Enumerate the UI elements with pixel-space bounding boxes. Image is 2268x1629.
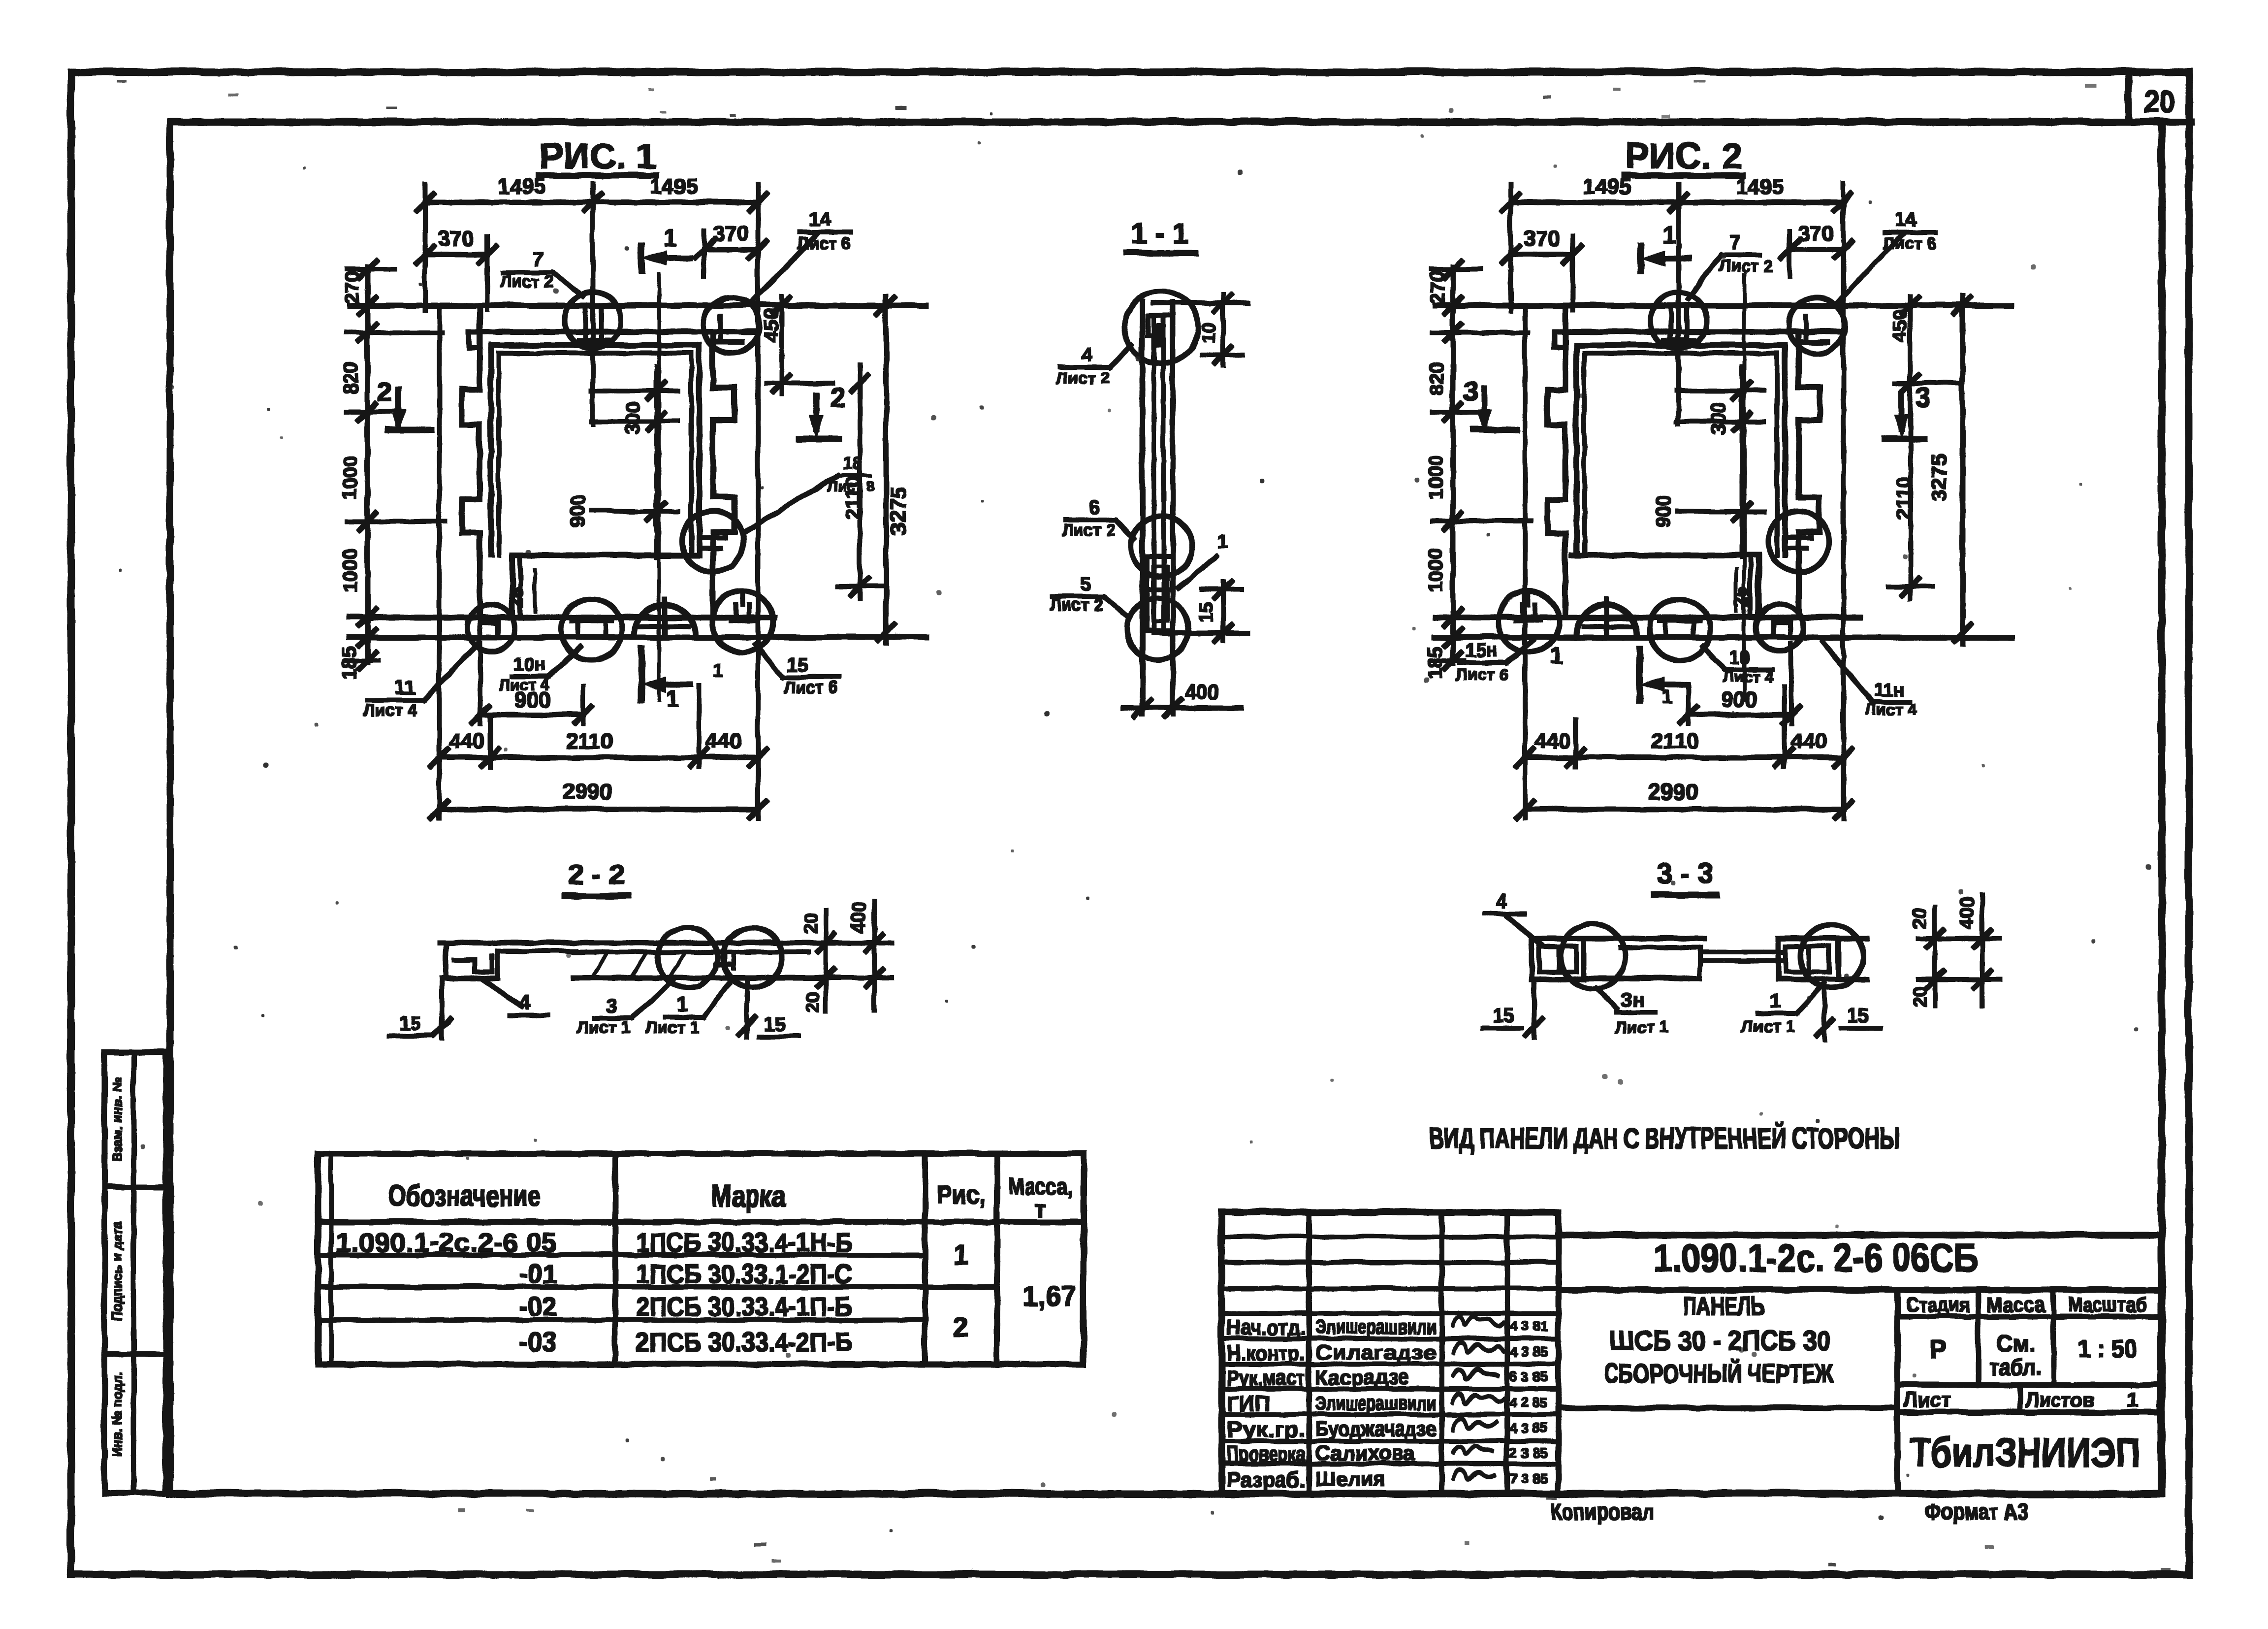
svg-text:10н: 10н xyxy=(512,653,544,674)
svg-text:Лист 6: Лист 6 xyxy=(797,233,850,252)
svg-text:15: 15 xyxy=(1195,601,1216,622)
svg-text:-02: -02 xyxy=(518,1291,556,1321)
svg-text:900: 900 xyxy=(1652,494,1674,527)
figure 2 interior dim 900 xyxy=(1676,509,1763,513)
svg-text:1: 1 xyxy=(2126,1387,2138,1411)
figure 2 section marker 1 top xyxy=(1637,245,1643,270)
svg-text:3: 3 xyxy=(606,994,616,1016)
svg-text:ВИД ПАНЕЛИ ДАН С ВНУТРЕННЕЙ СТ: ВИД ПАНЕЛИ ДАН С ВНУТРЕННЕЙ СТОРОНЫ xyxy=(1429,1122,1899,1154)
figure 1 opening corner step xyxy=(510,554,514,617)
figure 1 dim 900 bottom xyxy=(479,712,582,717)
svg-text:1495: 1495 xyxy=(497,174,545,198)
svg-text:Лист 6: Лист 6 xyxy=(1882,233,1936,252)
svg-text:Шелия: Шелия xyxy=(1314,1466,1385,1490)
svg-text:1 - 1: 1 - 1 xyxy=(1130,217,1187,249)
section 3-3 left box detail xyxy=(1531,938,1583,978)
svg-text:Стадия: Стадия xyxy=(1905,1292,1969,1315)
svg-text:15: 15 xyxy=(786,653,808,675)
svg-text:1495: 1495 xyxy=(649,174,698,198)
figure 1 section cut line 1-1 xyxy=(657,274,660,699)
svg-text:25: 25 xyxy=(1731,586,1752,607)
svg-text:1: 1 xyxy=(663,225,676,251)
svg-text:11н: 11н xyxy=(1873,679,1904,700)
svg-text:7 3 85: 7 3 85 xyxy=(1509,1470,1547,1485)
figure 2 right dim 3275 xyxy=(1960,295,1964,643)
svg-text:370: 370 xyxy=(1797,221,1833,245)
svg-text:Рук.маст: Рук.маст xyxy=(1226,1366,1305,1390)
figure 2 bottom detail circles xyxy=(1756,603,1803,651)
figure 2 panel inner top face xyxy=(1554,328,1843,333)
figure 1 right dim 2110 xyxy=(857,364,861,598)
svg-text:Обозначение: Обозначение xyxy=(387,1178,540,1212)
svg-text:Формат А3: Формат А3 xyxy=(1924,1498,2027,1524)
svg-text:Лист 6: Лист 6 xyxy=(783,678,837,696)
svg-text:1,67: 1,67 xyxy=(1022,1280,1076,1311)
section 2-2 right dims 20 400 20 xyxy=(823,910,827,1010)
svg-text:Элишерашвили: Элишерашвили xyxy=(1314,1391,1436,1414)
header band bottom rule xyxy=(2158,118,2190,124)
section 3-3 slab body xyxy=(1531,936,1703,940)
title block code box rule xyxy=(1558,1287,2160,1292)
svg-text:1: 1 xyxy=(1769,989,1780,1011)
figure 1 panel left wall with notches xyxy=(461,305,479,617)
svg-text:4 2 85: 4 2 85 xyxy=(1509,1394,1547,1409)
svg-text:4 3 85: 4 3 85 xyxy=(1509,1343,1547,1359)
svg-text:370: 370 xyxy=(712,221,748,245)
svg-text:820: 820 xyxy=(1425,361,1447,394)
svg-text:11: 11 xyxy=(394,676,415,698)
figure 2 panel left wall with notches xyxy=(1547,305,1565,617)
figure 1 detail circle top right xyxy=(703,297,759,353)
figure 2 panel bottom faces xyxy=(1435,614,1859,619)
svg-text:4: 4 xyxy=(1081,343,1092,365)
svg-text:1: 1 xyxy=(712,659,723,681)
svg-text:270: 270 xyxy=(1426,270,1448,303)
svg-text:1.090.1-2с.2-6 05: 1.090.1-2с.2-6 05 xyxy=(335,1227,556,1257)
figure 2 dim 2990 xyxy=(1524,807,1843,811)
section 3-3 right box detail xyxy=(1778,938,1838,978)
svg-text:1ПСБ 30.33.1-2П-С: 1ПСБ 30.33.1-2П-С xyxy=(635,1259,852,1288)
section 2-2 slab top face xyxy=(440,940,833,945)
svg-text:15: 15 xyxy=(399,1012,421,1034)
section 1-1 top face and hook xyxy=(1153,300,1247,305)
figure 1 opening outline xyxy=(490,342,699,347)
figure 1 bottom circle right xyxy=(711,590,772,652)
svg-text:т: т xyxy=(1034,1196,1046,1222)
svg-text:450: 450 xyxy=(1888,309,1910,342)
svg-text:-03: -03 xyxy=(518,1327,556,1356)
section 1-1 detail circle top xyxy=(1124,290,1197,363)
svg-text:5: 5 xyxy=(1080,573,1090,594)
svg-text:1000: 1000 xyxy=(1424,455,1446,499)
svg-text:3275: 3275 xyxy=(886,486,910,534)
section 1-1 dim 15 xyxy=(1220,581,1224,640)
svg-text:Касрадзе: Касрадзе xyxy=(1314,1365,1409,1388)
svg-text:20: 20 xyxy=(1909,985,1930,1006)
svg-text:2 - 2: 2 - 2 xyxy=(567,858,624,890)
figure 2 left dimension chain xyxy=(1450,266,1455,662)
section 3-3 left dim 15 xyxy=(1532,978,1535,1038)
svg-text:2: 2 xyxy=(377,376,392,406)
svg-text:2: 2 xyxy=(953,1310,968,1341)
svg-text:РИС. 1: РИС. 1 xyxy=(539,136,656,175)
svg-text:270: 270 xyxy=(341,270,362,303)
svg-text:20: 20 xyxy=(802,991,823,1012)
svg-text:400: 400 xyxy=(1184,680,1218,703)
figure 1 panel inner top face xyxy=(468,328,757,333)
figure 1 panel top face xyxy=(349,302,926,307)
svg-text:1495: 1495 xyxy=(1582,174,1630,198)
svg-text:Масса: Масса xyxy=(1985,1292,2045,1315)
section 1-1 bottom anchor box xyxy=(1146,555,1172,630)
svg-text:Элишерашвили: Элишерашвили xyxy=(1314,1314,1436,1337)
svg-text:10: 10 xyxy=(1198,322,1218,342)
svg-text:1000: 1000 xyxy=(1424,548,1446,592)
svg-text:400: 400 xyxy=(848,901,869,934)
figure 2 right dim 450 xyxy=(1908,295,1912,394)
svg-text:Буоджачадзе: Буоджачадзе xyxy=(1314,1416,1436,1439)
figure 2 right dim 2110 xyxy=(1908,364,1912,598)
svg-text:1: 1 xyxy=(1549,642,1563,668)
figure 1 interior dim 300 xyxy=(654,365,658,556)
figure 2 detail circle mid right xyxy=(1767,510,1828,571)
figure 2 section marker 1 bottom xyxy=(1636,649,1642,699)
svg-text:2 3 85: 2 3 85 xyxy=(1509,1444,1547,1460)
svg-text:1: 1 xyxy=(1662,222,1675,248)
svg-text:185: 185 xyxy=(338,646,360,679)
left margin stamp boxes xyxy=(104,1051,165,1493)
figure 2 bottom circle right xyxy=(1498,590,1559,652)
svg-text:Инв. № подл.: Инв. № подл. xyxy=(109,1371,124,1456)
svg-text:2ПСБ 30.33.4-1П-Б: 2ПСБ 30.33.4-1П-Б xyxy=(635,1291,852,1321)
figure 1 dim 370 right xyxy=(703,247,757,251)
section 3-3 detail circle right xyxy=(1799,924,1862,987)
svg-text:400: 400 xyxy=(1955,896,1977,929)
svg-text:2110: 2110 xyxy=(565,728,612,752)
svg-text:3: 3 xyxy=(1463,376,1477,406)
figure 1 panel bottom faces xyxy=(349,614,773,619)
section 1-1 wall strip xyxy=(1140,301,1144,713)
figure 1 panel right wall with notches xyxy=(712,331,734,617)
svg-text:Проверка: Проверка xyxy=(1226,1441,1305,1466)
svg-text:900: 900 xyxy=(567,494,588,527)
svg-text:300: 300 xyxy=(1707,401,1728,434)
svg-text:20: 20 xyxy=(800,912,821,933)
title block sheet row xyxy=(1897,1382,2160,1387)
svg-text:1000: 1000 xyxy=(339,455,360,499)
svg-text:Силагадзе: Силагадзе xyxy=(1314,1340,1436,1363)
svg-text:Лист 2: Лист 2 xyxy=(1055,368,1109,387)
figure 1 dim row 440 2110 440 xyxy=(439,755,757,759)
svg-text:10: 10 xyxy=(1728,647,1749,667)
svg-text:450: 450 xyxy=(760,309,781,342)
svg-text:6 3 85: 6 3 85 xyxy=(1509,1368,1547,1384)
svg-text:4 3 81: 4 3 81 xyxy=(1509,1318,1547,1333)
svg-text:Лист 1: Лист 1 xyxy=(576,1017,630,1036)
svg-text:Лист 6: Лист 6 xyxy=(1455,665,1508,684)
figure 1 detail circle top centre xyxy=(564,292,620,348)
title block outline xyxy=(1221,1211,2160,1493)
figure 1 bottom dome detail xyxy=(634,604,695,635)
figure 2 opening outline xyxy=(1576,342,1784,347)
svg-text:Лист 2: Лист 2 xyxy=(1061,520,1115,539)
figure 1 top dim extension lines xyxy=(422,183,426,310)
svg-text:3275: 3275 xyxy=(1926,453,1950,501)
svg-text:Р: Р xyxy=(1929,1335,1946,1363)
svg-text:4: 4 xyxy=(519,991,531,1013)
svg-text:Марка: Марка xyxy=(711,1178,785,1212)
figure 2 detail circle top right xyxy=(1788,297,1844,353)
svg-text:15н: 15н xyxy=(1465,640,1497,660)
svg-text:185: 185 xyxy=(1424,646,1445,679)
svg-text:ГИП: ГИП xyxy=(1226,1391,1269,1415)
svg-text:Лист 4: Лист 4 xyxy=(498,675,548,693)
svg-text:табл.: табл. xyxy=(1989,1353,2041,1379)
figure 1 right dim 450 xyxy=(779,295,783,394)
svg-text:Зн: Зн xyxy=(1619,988,1643,1010)
section 3-3 right dims 20 400 20 xyxy=(1932,906,1936,1005)
section 1-1 dim 400 xyxy=(1122,705,1241,710)
svg-text:440: 440 xyxy=(448,728,484,752)
svg-text:Лист 4: Лист 4 xyxy=(1722,667,1772,685)
svg-text:4 3 85: 4 3 85 xyxy=(1509,1420,1547,1435)
svg-text:3: 3 xyxy=(1915,382,1930,412)
inner drawing frame xyxy=(169,121,2161,1493)
svg-text:Листов: Листов xyxy=(2025,1387,2094,1411)
svg-text:15: 15 xyxy=(1492,1004,1514,1026)
svg-text:1000: 1000 xyxy=(339,548,360,592)
figure 1 detail circle mid right xyxy=(682,510,743,571)
figure 1 right dim 3275 xyxy=(884,295,888,643)
svg-text:Лист 8: Лист 8 xyxy=(827,478,874,494)
svg-text:1: 1 xyxy=(1661,686,1671,708)
figure 1 top dimension line 1495+1495 xyxy=(424,199,757,204)
section 2-2 dim 15 right xyxy=(744,977,748,1036)
svg-text:ТбилЗНИИЭП: ТбилЗНИИЭП xyxy=(1909,1429,2140,1475)
svg-text:ПАНЕЛЬ: ПАНЕЛЬ xyxy=(1683,1291,1764,1320)
figure 2 dim 370 right xyxy=(1789,247,1843,251)
svg-text:300: 300 xyxy=(621,401,643,434)
svg-text:Лист 1: Лист 1 xyxy=(645,1017,699,1036)
figure 1 section marker 1 top xyxy=(638,245,644,270)
section 2-2 detail circle right xyxy=(722,927,781,986)
svg-text:2110: 2110 xyxy=(1651,728,1697,752)
svg-text:440: 440 xyxy=(704,728,740,752)
svg-text:2: 2 xyxy=(830,382,844,412)
figure 2 section cut line 1-1 xyxy=(1742,274,1745,699)
section 3-3 dim 15 right xyxy=(1822,978,1826,1039)
svg-text:Н.контр.: Н.контр. xyxy=(1226,1340,1305,1365)
svg-text:20: 20 xyxy=(2143,83,2174,119)
svg-text:См.: См. xyxy=(1995,1330,2035,1355)
svg-text:Лист 2: Лист 2 xyxy=(1049,595,1103,614)
svg-text:370: 370 xyxy=(1523,226,1559,250)
svg-text:Лист 4: Лист 4 xyxy=(363,700,416,719)
svg-text:2ПСБ 30.33.4-2П-Б: 2ПСБ 30.33.4-2П-Б xyxy=(635,1327,852,1356)
svg-text:Лист 1: Лист 1 xyxy=(1614,1017,1668,1036)
section 2-2 slab body xyxy=(497,948,575,952)
figure 1 bottom detail circles xyxy=(467,603,514,651)
figure 2 detail circle top centre xyxy=(1650,292,1706,348)
svg-text:3 - 3: 3 - 3 xyxy=(1656,857,1713,889)
svg-text:Лист 2: Лист 2 xyxy=(499,272,553,291)
svg-text:440: 440 xyxy=(1790,728,1826,752)
svg-text:Разраб.: Разраб. xyxy=(1226,1467,1305,1491)
svg-text:25: 25 xyxy=(507,586,527,607)
svg-text:СБОРОЧНЫЙ ЧЕРТЕЖ: СБОРОЧНЫЙ ЧЕРТЕЖ xyxy=(1604,1358,1833,1388)
section 1-1 detail circle bottom xyxy=(1126,598,1187,659)
section 2-2 left dim 15 xyxy=(439,977,443,1038)
section 2-2 detail circle left xyxy=(657,927,717,987)
svg-text:1ПСБ 30.33.4-1Н-Б: 1ПСБ 30.33.4-1Н-Б xyxy=(635,1227,852,1257)
svg-text:РИС. 2: РИС. 2 xyxy=(1624,136,1741,175)
svg-text:ШСБ 30 - 2ПСБ 30: ШСБ 30 - 2ПСБ 30 xyxy=(1609,1324,1830,1355)
section 2-2 joint marks xyxy=(715,942,733,968)
figure 2 dim row 440 2110 440 xyxy=(1524,755,1843,759)
svg-text:18: 18 xyxy=(842,453,862,473)
svg-text:Лист 2: Лист 2 xyxy=(1719,256,1772,275)
svg-text:820: 820 xyxy=(340,361,361,394)
svg-text:2990: 2990 xyxy=(1647,778,1697,804)
figure 2 panel right wall with notches xyxy=(1798,331,1819,617)
figure 2 opening corner step xyxy=(1756,554,1760,617)
section 1-1 detail circle middle xyxy=(1130,515,1191,576)
section 1-1 dim 10 xyxy=(1220,293,1224,364)
figure 1 dim 2990 xyxy=(439,807,757,811)
svg-text:1495: 1495 xyxy=(1735,174,1783,198)
svg-text:1: 1 xyxy=(1216,530,1227,552)
section 2-2 left hook detail xyxy=(446,942,497,977)
figure 2 top dim extension lines xyxy=(1508,183,1512,310)
figure 2 bottom dome detail xyxy=(1575,604,1636,635)
svg-text:370: 370 xyxy=(437,226,473,250)
svg-text:Масштаб: Масштаб xyxy=(2067,1292,2146,1315)
sheet number box divider xyxy=(2125,74,2131,121)
figure 1 left dimension chain xyxy=(365,266,369,662)
figure 1 section marker 1 bottom xyxy=(638,649,644,699)
svg-text:6: 6 xyxy=(1088,496,1099,518)
title block stage mass scale cells xyxy=(1894,1289,1900,1493)
svg-text:Лист 1: Лист 1 xyxy=(1741,1016,1794,1035)
svg-text:1: 1 xyxy=(953,1238,968,1270)
figure 2 top dimension line 1495+1495 xyxy=(1510,199,1843,204)
svg-text:14: 14 xyxy=(1894,208,1916,229)
figure 2 panel top face xyxy=(1435,302,2011,307)
svg-text:7: 7 xyxy=(1729,231,1740,253)
svg-text:1: 1 xyxy=(666,685,679,712)
svg-text:Взам. инв. №: Взам. инв. № xyxy=(109,1077,124,1161)
svg-text:Салихова: Салихова xyxy=(1314,1441,1415,1464)
svg-text:-01: -01 xyxy=(518,1259,556,1288)
parts table grid xyxy=(318,1153,1083,1364)
svg-text:20: 20 xyxy=(1909,908,1930,928)
svg-text:2990: 2990 xyxy=(562,778,612,804)
svg-text:1: 1 xyxy=(677,993,688,1015)
svg-text:Копировал: Копировал xyxy=(1550,1498,1653,1524)
svg-text:Рук.гр.: Рук.гр. xyxy=(1226,1417,1305,1441)
title block signature grid xyxy=(1306,1211,1310,1493)
svg-text:1.090.1-2с. 2-6 06СБ: 1.090.1-2с. 2-6 06СБ xyxy=(1653,1235,1978,1279)
figure 2 dim 370 left xyxy=(1510,252,1572,256)
svg-text:2110: 2110 xyxy=(1892,476,1914,519)
svg-text:900: 900 xyxy=(1720,687,1756,711)
section 1-1 bottom face xyxy=(1153,630,1247,635)
svg-text:4: 4 xyxy=(1495,890,1506,912)
svg-text:7: 7 xyxy=(532,248,543,269)
svg-text:Подпись и дата: Подпись и дата xyxy=(109,1221,124,1320)
figure 2 dim 900 bottom xyxy=(1688,712,1790,717)
figure 1 interior dim 900 xyxy=(591,509,677,513)
svg-text:15: 15 xyxy=(763,1013,785,1035)
figure 2 interior dim 300 xyxy=(1739,365,1743,556)
svg-text:Лист: Лист xyxy=(1903,1387,1950,1411)
svg-text:1 : 50: 1 : 50 xyxy=(2077,1334,2136,1362)
section 3-3 detail circle left xyxy=(1560,923,1625,988)
svg-text:Нач.отд.: Нач.отд. xyxy=(1226,1315,1305,1339)
svg-text:Рис,: Рис, xyxy=(936,1180,985,1208)
svg-text:15: 15 xyxy=(1846,1004,1868,1026)
svg-text:14: 14 xyxy=(808,208,831,229)
svg-text:440: 440 xyxy=(1533,728,1569,752)
figure 1 dim 370 left xyxy=(424,252,486,256)
